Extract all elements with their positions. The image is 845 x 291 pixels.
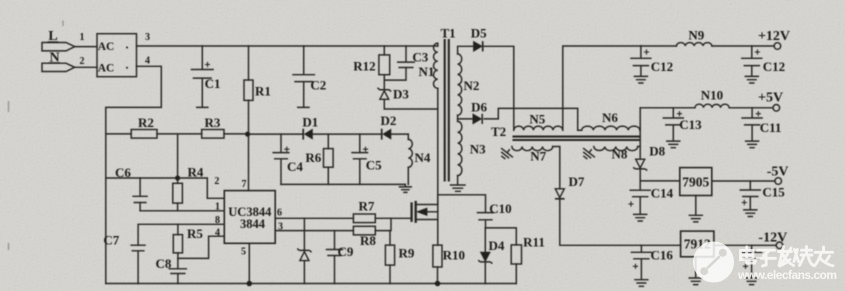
svg-text:+5V: +5V xyxy=(758,91,783,106)
svg-text:C5: C5 xyxy=(366,158,382,173)
svg-text:D3: D3 xyxy=(393,87,409,102)
svg-text:AC: AC xyxy=(98,41,115,53)
svg-text:D4: D4 xyxy=(489,238,505,253)
svg-text:C14: C14 xyxy=(651,186,674,201)
svg-text:N2: N2 xyxy=(464,78,480,93)
svg-text:C11: C11 xyxy=(760,120,782,135)
svg-text:N10: N10 xyxy=(701,88,723,103)
svg-text:T1: T1 xyxy=(441,26,456,41)
svg-text:-12V: -12V xyxy=(758,231,787,246)
svg-text:T2: T2 xyxy=(491,124,506,139)
svg-text:D1: D1 xyxy=(302,115,318,130)
svg-text:4: 4 xyxy=(215,228,220,239)
svg-text:C15: C15 xyxy=(762,185,785,200)
svg-text:D7: D7 xyxy=(568,174,584,189)
svg-text:R2: R2 xyxy=(138,115,154,130)
svg-text:2: 2 xyxy=(80,56,85,67)
svg-text:C3: C3 xyxy=(412,50,428,65)
svg-text:R1: R1 xyxy=(255,84,271,99)
svg-text:7905: 7905 xyxy=(682,175,709,190)
svg-text:N6: N6 xyxy=(602,110,618,125)
svg-text:R8: R8 xyxy=(360,233,376,248)
svg-text:C9: C9 xyxy=(338,244,354,259)
svg-text:N5: N5 xyxy=(529,112,545,127)
svg-text:4: 4 xyxy=(145,56,150,67)
svg-text:+12V: +12V xyxy=(758,29,790,44)
svg-text:D6: D6 xyxy=(471,100,487,115)
svg-text:5: 5 xyxy=(241,247,246,258)
svg-text:C13: C13 xyxy=(679,117,702,132)
svg-text:R5: R5 xyxy=(187,226,203,241)
svg-text:AC: AC xyxy=(98,63,115,75)
svg-text:R7: R7 xyxy=(359,198,375,213)
svg-text:3: 3 xyxy=(278,222,283,233)
svg-text:R3: R3 xyxy=(205,115,221,130)
svg-text:6: 6 xyxy=(277,208,282,219)
svg-text:C16: C16 xyxy=(651,248,674,263)
svg-text:R4: R4 xyxy=(188,165,204,180)
svg-text:C6: C6 xyxy=(115,165,131,180)
svg-text:R6: R6 xyxy=(305,150,321,165)
svg-text:D2: D2 xyxy=(380,113,396,128)
svg-text:R11: R11 xyxy=(523,235,545,250)
svg-text:D8: D8 xyxy=(649,144,665,159)
svg-text:N4: N4 xyxy=(414,150,430,165)
svg-text:C2: C2 xyxy=(310,78,326,93)
svg-text:1: 1 xyxy=(215,202,220,213)
svg-text:C12: C12 xyxy=(651,59,673,74)
svg-text:N9: N9 xyxy=(688,28,704,43)
svg-text:N8: N8 xyxy=(611,147,627,162)
svg-text:-5V: -5V xyxy=(767,165,789,180)
svg-text:C4: C4 xyxy=(287,159,303,174)
svg-text:N7: N7 xyxy=(530,149,546,164)
svg-text:3: 3 xyxy=(145,32,150,43)
svg-text:R9: R9 xyxy=(399,246,415,261)
svg-text:1: 1 xyxy=(80,32,85,43)
svg-text:7: 7 xyxy=(242,179,247,190)
svg-text:www.elecfans.com: www.elecfans.com xyxy=(737,268,837,282)
svg-text:8: 8 xyxy=(215,215,220,226)
svg-text:C1: C1 xyxy=(205,76,221,91)
svg-text:3844: 3844 xyxy=(240,217,266,231)
svg-text:2: 2 xyxy=(214,176,219,187)
svg-text:C8: C8 xyxy=(156,256,172,271)
svg-text:R10: R10 xyxy=(443,247,465,262)
svg-text:N1: N1 xyxy=(418,64,434,79)
svg-text:R12: R12 xyxy=(353,59,375,74)
svg-text:C12: C12 xyxy=(763,59,785,74)
svg-text:D5: D5 xyxy=(471,26,487,41)
svg-text:C10: C10 xyxy=(489,201,511,216)
svg-text:C7: C7 xyxy=(103,233,119,248)
svg-text:N3: N3 xyxy=(470,142,486,157)
